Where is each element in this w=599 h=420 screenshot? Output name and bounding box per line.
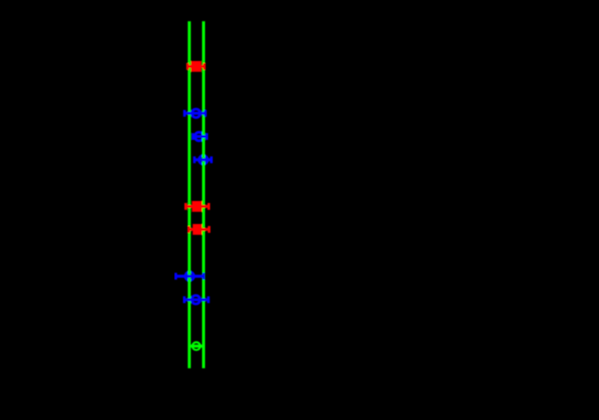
error bar E4: horizontal error bar of row 4 [194, 156, 211, 163]
error bar E5: horizontal error bar of row 5 [186, 203, 209, 210]
marker M9 green open circle (average) (row 9) [192, 342, 200, 350]
marker M2 blue open circle (row 2) [192, 109, 201, 118]
error bar E2: horizontal error bar of row 2 [185, 110, 206, 117]
marker M1 red square (row 1) [191, 61, 201, 72]
error bar E9: horizontal error bar of row 9 [189, 345, 204, 348]
band line left: green vertical line of average band [188, 21, 191, 368]
marker M5 red square (row 5) [192, 201, 202, 212]
error bar E6: horizontal error bar of row 6 [189, 226, 209, 233]
marker M8 blue open circle (row 8) [192, 295, 201, 304]
marker M4 blue open circle (row 4) [199, 156, 208, 165]
marker M3 blue open circle (row 3) [195, 132, 204, 141]
marker M6 red square (row 6) [193, 224, 203, 235]
band line right: green vertical line of average band [202, 21, 205, 368]
marker M7 blue open circle (row 7) [185, 272, 194, 281]
error bar E3: horizontal error bar of row 3 [193, 133, 207, 140]
error bar E1: horizontal error bar of row 1 [188, 63, 205, 70]
error bar E7: horizontal error bar of row 7 [176, 273, 204, 280]
error bar E8: horizontal error bar of row 8 [184, 296, 208, 303]
